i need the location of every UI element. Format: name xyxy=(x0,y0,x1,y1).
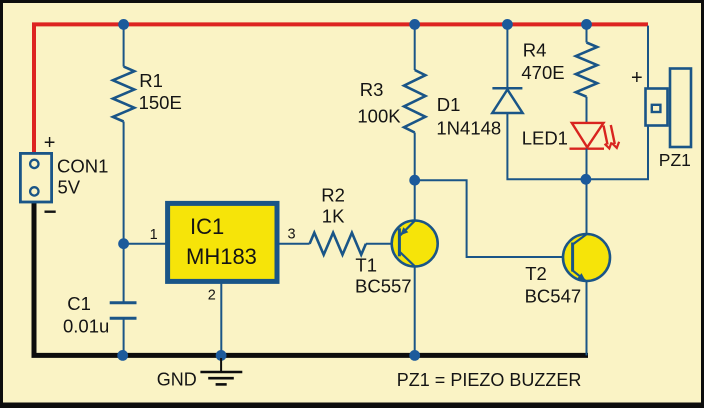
node on red rail at D1 xyxy=(502,19,513,30)
wire T1 emitter to GND rail xyxy=(414,266,416,355)
svg-text:470E: 470E xyxy=(521,62,564,83)
resistor R2 xyxy=(310,233,366,255)
svg-text:+: + xyxy=(44,132,56,154)
IC U1 MH183 xyxy=(168,203,277,281)
resistor R4 xyxy=(576,43,597,97)
svg-text:C1: C1 xyxy=(67,293,91,314)
transistor Q1 (T1 BC557 PNP) xyxy=(392,221,438,267)
wire R4 top to red rail xyxy=(586,24,588,42)
capacitor C1 xyxy=(110,303,137,319)
svg-text:IC1: IC1 xyxy=(190,214,224,239)
node on red rail at R3 xyxy=(409,19,420,30)
node T1 collector junction xyxy=(409,175,420,186)
wire LED node to PZ1 xyxy=(586,26,648,180)
svg-text:1N4148: 1N4148 xyxy=(436,117,501,138)
wire C1 bottom to GND rail xyxy=(123,318,125,355)
wire pin2 of IC1 to GND rail xyxy=(220,282,222,355)
svg-text:PZ1 = PIEZO BUZZER: PZ1 = PIEZO BUZZER xyxy=(397,370,582,390)
svg-text:CON1: CON1 xyxy=(57,156,108,177)
node pin1 junction xyxy=(118,238,129,249)
wire T1 collector node to T2 base xyxy=(415,180,573,257)
svg-text:1: 1 xyxy=(150,227,158,243)
svg-text:R2: R2 xyxy=(321,184,345,205)
svg-text:LED1: LED1 xyxy=(522,128,568,149)
wire +5V red rail from CON1 to top right xyxy=(34,24,648,152)
diode D1 xyxy=(492,88,522,113)
wire D1 bottom to LED node xyxy=(507,113,586,179)
node GND rail at T1 xyxy=(409,350,420,361)
wire LED1 to T2 collector xyxy=(586,149,588,235)
resistor R1 xyxy=(113,67,134,122)
svg-text:3: 3 xyxy=(288,227,296,243)
buzzer PZ1 minus mark xyxy=(652,105,661,112)
wire R1 top to red rail xyxy=(123,24,125,66)
node on red rail at R4 xyxy=(581,19,592,30)
svg-text:1K: 1K xyxy=(322,206,345,227)
svg-text:GND: GND xyxy=(157,370,197,390)
svg-text:T2: T2 xyxy=(525,263,547,284)
node GND rail at pin2 xyxy=(216,350,227,361)
svg-text:100K: 100K xyxy=(357,106,401,127)
connector CON1 xyxy=(20,153,51,202)
transistor Q2 (T2 BC547 NPN) xyxy=(563,234,610,281)
svg-text:150E: 150E xyxy=(139,92,182,113)
svg-text:BC557: BC557 xyxy=(355,276,412,297)
svg-text:+: + xyxy=(631,67,643,89)
wire R3 top to red rail xyxy=(414,24,416,70)
svg-text:2: 2 xyxy=(208,288,216,304)
svg-text:T1: T1 xyxy=(355,255,377,276)
svg-text:R3: R3 xyxy=(360,79,384,100)
svg-text:R4: R4 xyxy=(523,40,547,61)
wire R1 bottom to node pin1 and down to C1 xyxy=(123,122,125,303)
svg-text:R1: R1 xyxy=(139,70,163,91)
wire R4 bottom to LED1 xyxy=(586,97,588,123)
wire T2 emitter to GND rail end xyxy=(586,281,588,356)
buzzer PZ1 body xyxy=(670,69,691,148)
node on red rail at R1 xyxy=(118,19,129,30)
wire GND black rail (CON1 minus down and bottom run) xyxy=(34,203,588,355)
resistor R3 xyxy=(404,70,425,133)
ground symbol xyxy=(200,358,242,384)
node LED1 T2 junction xyxy=(581,174,592,185)
buzzer PZ1 terminals box xyxy=(646,89,668,126)
svg-text:0.01u: 0.01u xyxy=(63,316,109,337)
svg-text:D1: D1 xyxy=(437,94,461,115)
svg-text:BC547: BC547 xyxy=(525,286,582,307)
wire R2 to T1 base xyxy=(366,243,400,245)
svg-text:5V: 5V xyxy=(58,176,81,197)
LED LED1 xyxy=(570,123,620,149)
wire pin1 of IC1 xyxy=(124,243,167,245)
svg-text:MH183: MH183 xyxy=(186,244,257,269)
wire R3 bottom to T1 collector node xyxy=(414,133,416,221)
wire D1 top to red rail xyxy=(506,24,508,88)
wire pin3 of IC1 to R2 xyxy=(278,243,310,245)
label CON1 minus terminal xyxy=(45,211,56,213)
svg-text:PZ1: PZ1 xyxy=(659,150,691,170)
node GND rail at C1 xyxy=(117,350,128,361)
